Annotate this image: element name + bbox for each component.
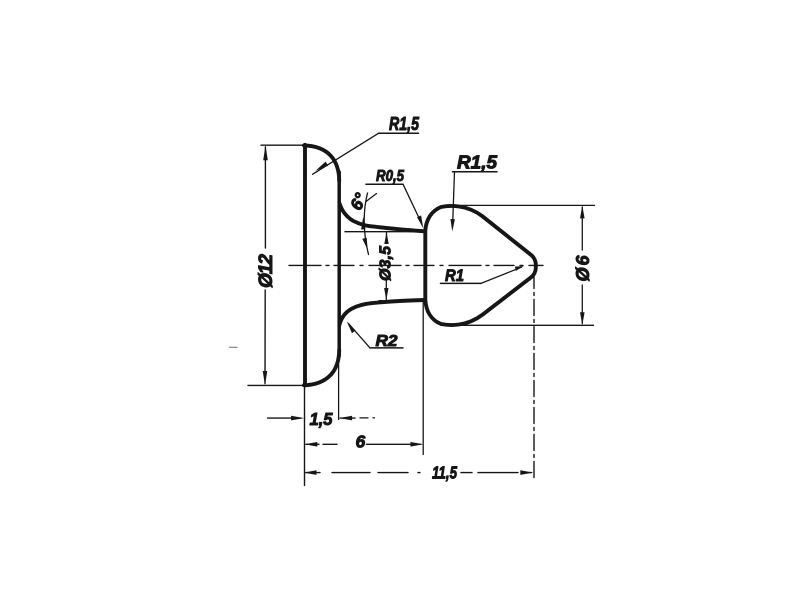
label R2 (neck-to-flange fillet) bbox=[347, 321, 403, 350]
label R1.5 (flange corner) bbox=[313, 114, 420, 174]
head outline bbox=[425, 206, 536, 325]
dimension Φ6: dimension line with arrows bbox=[580, 205, 585, 325]
dimension Φ12: label bbox=[256, 254, 277, 288]
label R0.5 (neck-to-head fillet) bbox=[366, 168, 423, 228]
extension line for 1.5 dim bbox=[338, 364, 340, 420]
dimension Φ6: extension lines bbox=[451, 205, 595, 325]
extension line for 6 dim bbox=[422, 303, 424, 455]
flange right face bbox=[337, 172, 341, 356]
label R1.5 (head corner) bbox=[450, 153, 498, 232]
svg-text:Ø3,5: Ø3,5 bbox=[378, 245, 395, 281]
dimension Φ12: extension lines bbox=[248, 145, 310, 385]
svg-text:11,5: 11,5 bbox=[432, 463, 457, 483]
6° label bbox=[347, 190, 371, 213]
label R1 (tip radius) bbox=[441, 266, 524, 285]
stray scan mark bbox=[230, 346, 238, 348]
dimension Φ12: dimension line with arrows bbox=[263, 145, 268, 385]
dimension 11.5 bbox=[304, 463, 534, 483]
flange bottom edge with corner bbox=[304, 350, 339, 386]
flange top edge with corner R1.5 bbox=[304, 145, 339, 181]
extension line at tip for 11.5 dim (dash-dot vertical) bbox=[533, 273, 535, 478]
svg-text:Ø6: Ø6 bbox=[573, 255, 593, 282]
centerline (horizontal axis, dash-dot) bbox=[289, 264, 543, 266]
dimension Φ6: label bbox=[573, 255, 593, 282]
svg-text:R1,5: R1,5 bbox=[389, 114, 420, 134]
dimension 1.5 bbox=[268, 409, 375, 429]
svg-text:R0,5: R0,5 bbox=[376, 168, 405, 185]
svg-text:R1: R1 bbox=[445, 266, 464, 285]
neck top edge (R2 fillet + 6° taper + R0.5) bbox=[339, 203, 425, 231]
left face extension line down bbox=[304, 386, 306, 486]
dimension Φ3.5: dimension line with arrows bbox=[384, 232, 389, 301]
svg-text:1,5: 1,5 bbox=[310, 409, 333, 429]
neck bottom edge bbox=[339, 300, 425, 325]
svg-text:Ø12: Ø12 bbox=[256, 254, 277, 288]
dimension Φ3.5: extension lines bbox=[345, 232, 423, 301]
svg-text:R1,5: R1,5 bbox=[457, 153, 498, 173]
flange left face bbox=[303, 145, 307, 386]
dimension 6 bbox=[304, 432, 423, 452]
6° angle dimension arc with arrow bbox=[361, 193, 376, 255]
dimension Φ3.5: label bbox=[378, 245, 395, 281]
svg-text:6: 6 bbox=[356, 432, 366, 452]
